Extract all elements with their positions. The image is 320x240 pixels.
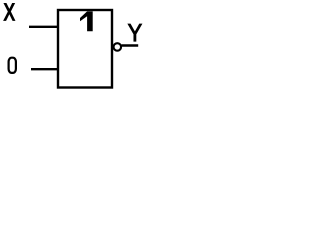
input label 0 [9, 58, 16, 73]
wire: input 0 to gate [31, 68, 59, 70]
wire: input X to gate [29, 26, 59, 28]
wire: bubble to output Y [122, 44, 139, 46]
gate U1 body (IEC "1" box) [58, 10, 112, 88]
output label Y [128, 24, 142, 41]
gate function label 1 [80, 11, 93, 31]
input label X [4, 4, 15, 21]
inversion bubble on output [114, 43, 122, 51]
